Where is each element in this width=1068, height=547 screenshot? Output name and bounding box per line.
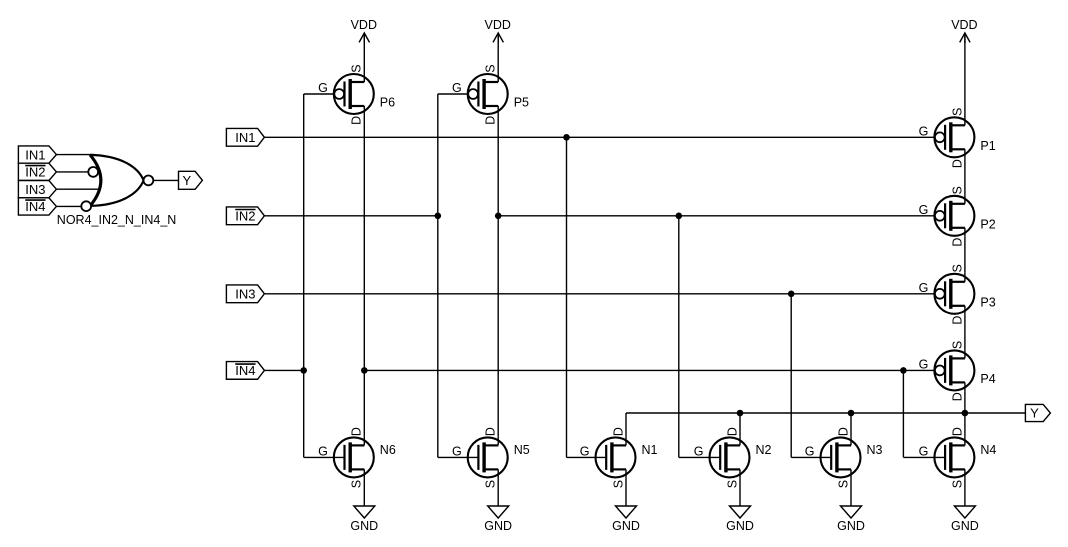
ground symbol GND at x=851.0 xyxy=(837,506,865,533)
wire gate output to Y xyxy=(153,179,178,181)
wire P6 gate xyxy=(304,93,335,95)
svg-text:N2: N2 xyxy=(756,443,772,457)
wire P3 drain to P4 source xyxy=(964,315,966,350)
svg-text:S: S xyxy=(836,480,850,488)
symbol pin IN4 (inverted) xyxy=(18,198,56,215)
wire gate input IN3 xyxy=(56,188,100,190)
junction Y at P4/N4 column xyxy=(962,410,969,417)
wire gate input IN1 xyxy=(56,154,95,156)
wire N1 gate xyxy=(567,456,607,458)
nor gate output bubble xyxy=(144,176,154,186)
junction IN2 internal N2 drop xyxy=(676,213,683,220)
wire P6/N6 drain column xyxy=(363,115,365,436)
wire IN4 internal row to P4 gate xyxy=(364,369,935,371)
svg-text:D: D xyxy=(950,392,964,401)
svg-text:G: G xyxy=(919,357,929,371)
power symbol VDD at x=498.2 xyxy=(484,18,510,43)
wire N2 drain up xyxy=(739,413,741,436)
wire N4 gate vertical xyxy=(902,370,904,457)
svg-text:P4: P4 xyxy=(980,372,995,386)
input pin IN4 (inverted) xyxy=(226,362,264,380)
svg-text:S: S xyxy=(484,64,498,72)
junction IN4 internal at drain column xyxy=(361,367,368,374)
junction IN2 internal at drain column xyxy=(495,213,502,220)
wire N1 drain up xyxy=(625,413,627,436)
wire N3 gate xyxy=(791,456,831,458)
wire IN2 pin to junction xyxy=(264,215,437,217)
svg-text:D: D xyxy=(484,427,498,436)
symbol pin IN3 xyxy=(18,181,56,198)
nor gate U1 body xyxy=(90,155,144,206)
wire P2 drain to P3 source xyxy=(964,237,966,273)
wire gate input IN2 xyxy=(56,171,88,173)
power symbol VDD at x=364.3 xyxy=(351,18,377,43)
nmos transistor N5 xyxy=(452,427,530,488)
wire IN4 pin to junction xyxy=(264,369,303,371)
pmos transistor P1 xyxy=(919,108,996,168)
ground symbol GND at x=364.3 xyxy=(350,506,378,533)
wire IN2_N vertical (P5/N5 gates) xyxy=(437,94,439,457)
wire N4 gate xyxy=(903,456,945,458)
svg-text:G: G xyxy=(694,444,704,458)
wire N2 gate xyxy=(679,456,720,458)
nmos transistor N2 xyxy=(694,427,772,488)
pmos transistor P2 xyxy=(919,186,996,246)
svg-text:G: G xyxy=(452,81,462,95)
svg-text:Y: Y xyxy=(182,173,191,188)
pmos transistor P3 xyxy=(919,264,996,324)
svg-text:P2: P2 xyxy=(980,217,995,231)
svg-text:D: D xyxy=(950,427,964,436)
nor gate input bubble IN4 xyxy=(81,201,91,211)
wire VDD2 to P5 source xyxy=(497,33,499,74)
svg-text:S: S xyxy=(950,480,964,488)
svg-text:IN1: IN1 xyxy=(25,147,45,162)
wire P5 gate xyxy=(438,93,468,95)
symbol pin Y xyxy=(179,171,203,189)
ground symbol GND at x=498.2 xyxy=(484,506,512,533)
svg-text:GND: GND xyxy=(612,519,640,533)
svg-text:IN3: IN3 xyxy=(25,182,45,197)
wire P1 drain to P2 source xyxy=(964,158,966,195)
junction IN4 internal N4 drop xyxy=(900,367,907,374)
wire NMOS source to GND at x=626.0 xyxy=(625,478,627,506)
svg-text:S: S xyxy=(950,186,964,194)
wire IN2 internal row to P2 gate xyxy=(498,215,935,217)
pmos transistor P5 xyxy=(452,64,529,124)
nmos transistor N3 xyxy=(805,427,883,488)
svg-text:S: S xyxy=(725,480,739,488)
junction IN4_N at pin row xyxy=(300,367,307,374)
wire NMOS source to GND at x=364.3 xyxy=(363,478,365,506)
symbol pin IN2 (inverted) xyxy=(18,163,56,180)
svg-text:G: G xyxy=(452,444,462,458)
nmos transistor N4 xyxy=(919,427,997,488)
svg-text:G: G xyxy=(919,203,929,217)
svg-text:GND: GND xyxy=(484,519,512,533)
svg-text:D: D xyxy=(950,159,964,168)
svg-text:Y: Y xyxy=(1030,406,1039,421)
svg-text:S: S xyxy=(350,64,364,72)
nmos transistor N6 xyxy=(318,427,396,488)
wire NMOS source to GND at x=964.9 xyxy=(964,478,966,506)
svg-text:P3: P3 xyxy=(980,295,995,309)
svg-text:N1: N1 xyxy=(642,443,658,457)
svg-text:GND: GND xyxy=(837,519,865,533)
svg-text:S: S xyxy=(484,480,498,488)
svg-text:G: G xyxy=(919,444,929,458)
wire IN1 row to P1 gate xyxy=(264,136,934,138)
svg-text:NOR4_IN2_N_IN4_N: NOR4_IN2_N_IN4_N xyxy=(57,213,177,227)
junction IN1 N1 drop xyxy=(563,134,570,141)
label NOR4_IN2_N_IN4_N xyxy=(57,213,177,227)
wire NMOS source to GND at x=851.0 xyxy=(850,478,852,506)
svg-text:G: G xyxy=(318,81,328,95)
nmos transistor N1 xyxy=(580,427,658,488)
svg-text:D: D xyxy=(950,238,964,247)
svg-text:VDD: VDD xyxy=(951,18,977,32)
svg-text:IN2: IN2 xyxy=(25,165,45,180)
wire VDD1 to P6 source xyxy=(363,33,365,74)
wire NMOS source to GND at x=498.2 xyxy=(497,478,499,506)
svg-text:D: D xyxy=(836,427,850,436)
svg-text:N4: N4 xyxy=(980,443,996,457)
power symbol VDD at x=964.9 xyxy=(951,18,977,43)
junction Y at N3 xyxy=(848,410,855,417)
svg-text:S: S xyxy=(950,264,964,272)
wire N1 gate vertical xyxy=(566,137,568,457)
svg-text:IN4: IN4 xyxy=(25,199,45,214)
input pin IN3 xyxy=(226,285,264,303)
svg-text:G: G xyxy=(580,444,590,458)
svg-text:VDD: VDD xyxy=(484,18,510,32)
svg-text:N6: N6 xyxy=(380,443,396,457)
svg-text:D: D xyxy=(725,427,739,436)
svg-text:G: G xyxy=(919,281,929,295)
svg-text:G: G xyxy=(805,444,815,458)
wire N3 drain up xyxy=(850,413,852,436)
svg-text:P6: P6 xyxy=(380,96,395,110)
wire N5 gate xyxy=(438,456,479,458)
wire N6 gate xyxy=(304,456,345,458)
svg-text:IN2: IN2 xyxy=(235,209,255,224)
wire gate input IN4 xyxy=(56,205,81,207)
svg-text:GND: GND xyxy=(951,519,979,533)
svg-text:D: D xyxy=(611,427,625,436)
junction Y at N2 xyxy=(737,410,744,417)
svg-text:D: D xyxy=(484,116,498,125)
output pin Y xyxy=(1025,404,1050,421)
svg-text:S: S xyxy=(611,480,625,488)
nor gate input bubble IN2 xyxy=(88,167,98,177)
pmos transistor P6 xyxy=(318,64,395,124)
junction IN3 N3 drop xyxy=(788,291,795,298)
svg-text:IN1: IN1 xyxy=(235,130,255,145)
wire N3 gate vertical xyxy=(790,294,792,458)
junction IN2_N at pin row xyxy=(435,213,442,220)
svg-text:D: D xyxy=(350,116,364,125)
svg-text:S: S xyxy=(350,480,364,488)
symbol pin IN1 xyxy=(18,146,56,163)
svg-text:S: S xyxy=(950,341,964,349)
pmos transistor P4 xyxy=(919,341,996,401)
wire P4 drain to Y row xyxy=(964,391,966,436)
svg-text:IN3: IN3 xyxy=(235,287,255,302)
svg-text:VDD: VDD xyxy=(351,18,377,32)
svg-text:P5: P5 xyxy=(514,96,529,110)
ground symbol GND at x=964.9 xyxy=(951,506,979,533)
ground symbol GND at x=626.0 xyxy=(612,506,640,533)
wire N2 gate vertical xyxy=(678,216,680,458)
svg-text:G: G xyxy=(919,124,929,138)
svg-text:P1: P1 xyxy=(980,139,995,153)
svg-text:S: S xyxy=(950,108,964,116)
svg-text:GND: GND xyxy=(350,519,378,533)
svg-text:D: D xyxy=(950,316,964,325)
wire P5/N5 drain column xyxy=(497,115,499,436)
input pin IN2 (inverted) xyxy=(226,207,264,225)
svg-text:G: G xyxy=(318,444,328,458)
wire Y output row xyxy=(626,412,1025,414)
svg-text:IN4: IN4 xyxy=(235,363,255,378)
svg-text:D: D xyxy=(350,427,364,436)
svg-text:GND: GND xyxy=(726,519,754,533)
wire NMOS source to GND at x=740.0 xyxy=(739,478,741,506)
wire VDD3 to P1 source xyxy=(964,33,966,117)
svg-text:N5: N5 xyxy=(514,443,530,457)
input pin IN1 xyxy=(226,128,264,146)
wire IN4_N vertical (P6/N6 gates) xyxy=(303,94,305,457)
svg-text:N3: N3 xyxy=(867,443,883,457)
wire IN3 row to P3 gate xyxy=(264,293,934,295)
ground symbol GND at x=740.0 xyxy=(726,506,754,533)
